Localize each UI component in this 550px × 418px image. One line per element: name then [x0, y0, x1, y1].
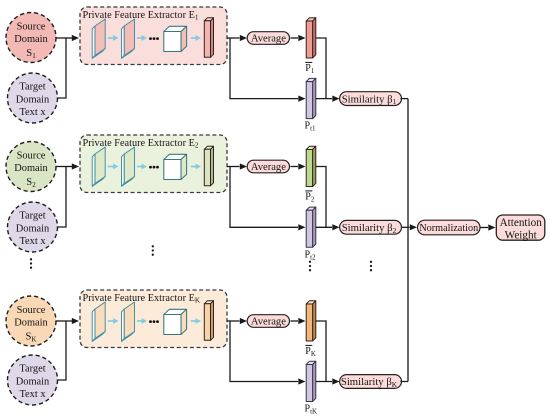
target feature bar PtK: [306, 361, 316, 401]
label PtK: [305, 404, 318, 416]
svg-text:Text x: Text x: [19, 107, 46, 118]
mean prototype bar P-bar 1: [306, 18, 316, 58]
cube block in E1: [164, 26, 187, 51]
svg-text:Similarity β2: Similarity β2: [342, 222, 397, 235]
target feature bar Pt1: [306, 78, 316, 118]
svg-text:Private Feature Extractor E2: Private Feature Extractor E2: [83, 138, 199, 150]
label Pt2: [305, 249, 317, 261]
wire+arrow: EK output to Average: [227, 318, 247, 324]
source domain circle S1: [6, 13, 56, 63]
wire: target circle row 1 to junction: [58, 38, 67, 98]
blue arrow 1 in E2: [108, 164, 119, 170]
vertical ellipsis below similarity beta2: [370, 261, 372, 272]
target domain circle (row 2): [8, 202, 58, 252]
svg-text:Domain: Domain: [14, 318, 48, 329]
blue arrow 3 in EK: [191, 318, 201, 324]
wire+arrow: into Similarity pill (row 1): [316, 96, 340, 102]
average pill (row 2): [247, 160, 289, 173]
blue arrow 3 in E2: [191, 164, 201, 170]
cube block in EK: [164, 309, 187, 334]
wire+arrow: source circle row 2 into extractor E2: [56, 163, 79, 169]
label P-bar 2: [305, 191, 315, 204]
attention weight box: [496, 215, 545, 241]
svg-text:Domain: Domain: [16, 223, 50, 234]
mean prototype bar P-bar K: [306, 301, 316, 341]
svg-text:Source: Source: [17, 151, 46, 162]
wire: junction down to target-feature line (row 3): [230, 321, 306, 385]
svg-text:Similarity βK: Similarity βK: [341, 376, 398, 389]
svg-text:Average: Average: [251, 162, 286, 173]
similarity pill beta2: [340, 220, 402, 234]
wire: P-bar 1 output down to similarity line: [316, 38, 326, 99]
svg-text:Domain: Domain: [16, 94, 50, 105]
ellipsis dots in E2: [149, 166, 159, 169]
svg-text:Source: Source: [17, 305, 46, 316]
svg-text:Text x: Text x: [19, 389, 46, 400]
vertical ellipsis below target circle row2: [30, 258, 32, 269]
vertical ellipsis below extractor E2: [152, 245, 154, 256]
svg-text:Similarity β1: Similarity β1: [342, 93, 397, 106]
wire+arrow: source circle row 3 into extractor EK: [56, 318, 79, 324]
svg-text:Average: Average: [251, 34, 286, 45]
svg-text:Domain: Domain: [14, 163, 48, 174]
feature-map slab 2 in E1: [122, 19, 135, 58]
target domain circle (row 1): [8, 73, 58, 123]
target domain circle (row 3): [8, 355, 58, 405]
cube block in E2: [164, 154, 187, 179]
svg-text:Source: Source: [17, 22, 46, 33]
wire+arrow: E2 output to Average: [227, 163, 247, 169]
svg-text:Average: Average: [251, 317, 286, 328]
wire+arrow: similarity beta2 into Normalization: [402, 224, 418, 230]
source domain circle SK: [6, 296, 56, 346]
wire: target circle row 2 to junction: [58, 167, 67, 228]
svg-text:Text x: Text x: [19, 236, 46, 247]
ellipsis dots in E1: [149, 37, 159, 40]
average pill (row 1): [247, 32, 289, 45]
feature-map slab 2 in EK: [122, 302, 135, 341]
wire+arrow: source circle row 1 into extractor E1: [56, 35, 79, 41]
svg-text:Domain: Domain: [16, 376, 50, 387]
blue arrow 2 in EK: [137, 318, 147, 324]
target feature bar Pt2: [306, 207, 316, 247]
svg-text:Domain: Domain: [14, 34, 48, 45]
similarity pill betaK: [340, 375, 402, 389]
blue arrow 2 in E1: [137, 35, 147, 41]
blue arrow 3 in E1: [191, 35, 201, 41]
collector vertical wire: [407, 99, 409, 382]
svg-text:Private Feature Extractor E1: Private Feature Extractor E1: [83, 10, 199, 22]
private feature extractor box EK: [80, 290, 227, 348]
feature-map slab 1 in E1: [92, 19, 105, 58]
vertical ellipsis below Pt2 bar label: [309, 261, 311, 272]
wire: target circle row 3 to junction: [58, 321, 67, 380]
wire+arrow: Normalization to Attention Weight: [480, 224, 496, 230]
feature-map slab 2 in E2: [122, 147, 135, 186]
svg-text:Normalization: Normalization: [419, 223, 478, 234]
wire+arrow: into Similarity pill (row 3): [316, 378, 340, 384]
label P-bar K: [305, 345, 316, 358]
wire+arrow: Average to mean bar P2: [291, 163, 306, 169]
similarity pill beta1: [340, 92, 402, 106]
wire: P-bar 2 output down to similarity line: [316, 167, 326, 228]
wire: similarity beta1 to collector: [401, 98, 409, 100]
label P-bar 1: [305, 62, 315, 75]
label Pt1: [305, 121, 317, 133]
feature-map slab 1 in EK: [92, 302, 105, 341]
output bar in E1: [204, 18, 213, 58]
wire+arrow: Average to mean bar P1: [291, 35, 306, 41]
private feature extractor box E1: [80, 7, 227, 65]
wire+arrow: into Similarity pill (row 2): [316, 224, 340, 230]
average pill (row 3): [247, 315, 289, 328]
source domain circle S2: [6, 142, 56, 192]
blue arrow 2 in E2: [137, 164, 147, 170]
svg-text:Target: Target: [19, 363, 45, 374]
wire: junction down to target-feature line (row 1): [230, 38, 306, 102]
wire: P-bar K output down to similarity line: [316, 321, 326, 382]
svg-text:Target: Target: [19, 210, 45, 221]
svg-text:Weight: Weight: [505, 229, 538, 241]
ellipsis dots in EK: [149, 320, 159, 323]
wire: junction down to target-feature line (row 2): [230, 167, 306, 231]
svg-text:Attention: Attention: [500, 217, 543, 229]
feature-map slab 1 in E2: [92, 147, 105, 186]
output bar in EK: [204, 301, 213, 341]
wire: similarity betaK to collector: [401, 381, 409, 383]
svg-text:Private Feature Extractor EK: Private Feature Extractor EK: [83, 293, 201, 305]
mean prototype bar P-bar 2: [306, 146, 316, 186]
blue arrow 1 in EK: [108, 318, 119, 324]
svg-text:Target: Target: [19, 81, 45, 92]
blue arrow 1 in E1: [108, 35, 119, 41]
private feature extractor box E2: [80, 135, 227, 193]
wire+arrow: Average to mean bar PK: [291, 318, 306, 324]
normalization pill: [418, 220, 481, 235]
wire+arrow: E1 output to Average: [227, 35, 247, 41]
output bar in E2: [204, 146, 213, 186]
